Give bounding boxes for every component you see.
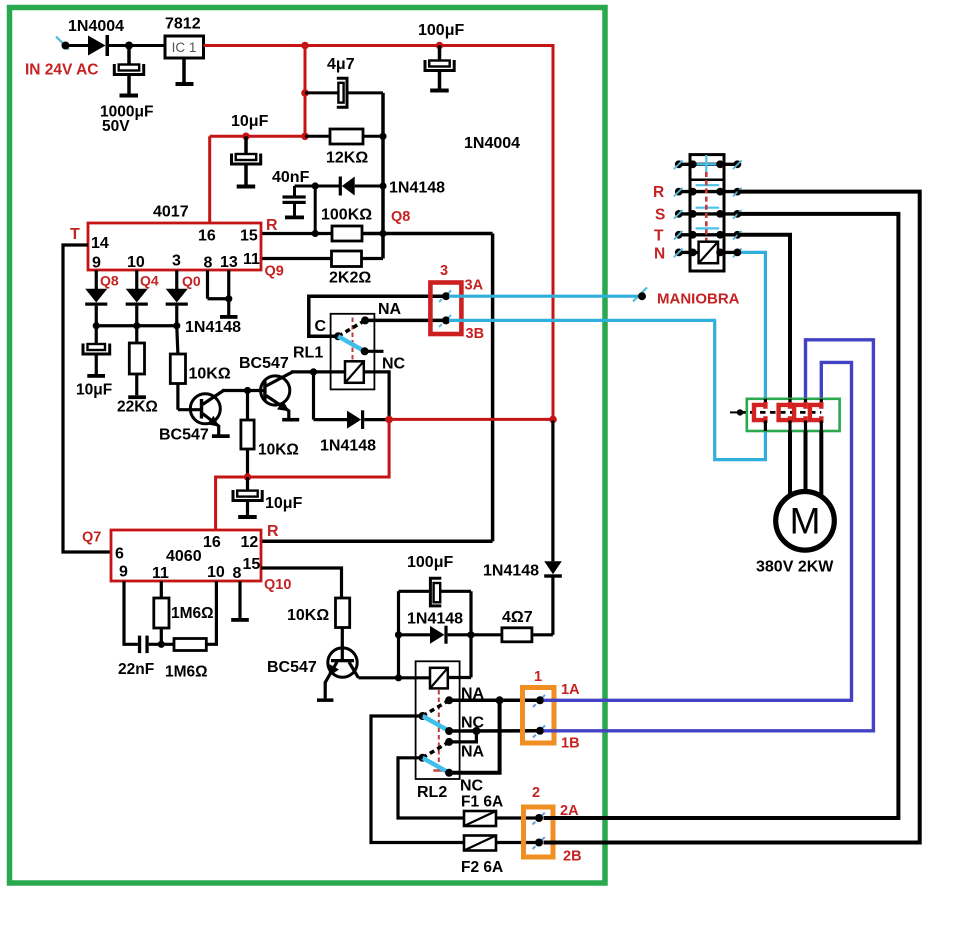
contactor row T [679, 233, 738, 236]
node NC contact [361, 347, 369, 355]
svg-text:100KΩ: 100KΩ [321, 207, 372, 224]
switch arm dashed to NA [338, 320, 365, 336]
svg-text:3B: 3B [466, 326, 485, 342]
wire cyan 3A to MANIOBRA [449, 295, 638, 298]
wire NA to 3B [365, 319, 445, 323]
contactor row N [679, 251, 738, 254]
wire +12V red rail [204, 44, 554, 47]
relay RL1 box [331, 314, 375, 390]
transistor BC547 Q2 [261, 376, 290, 405]
svg-text:1N4148: 1N4148 [483, 563, 539, 580]
wire pin15 Q10 out [261, 568, 342, 598]
contactor row R [679, 190, 738, 193]
node [125, 42, 133, 50]
svg-text:2: 2 [532, 785, 540, 801]
capacitor 10uF (bus) [95, 326, 98, 344]
resistor 10K (Q10) [336, 598, 350, 628]
svg-text:15: 15 [240, 228, 258, 245]
transistor BC547 Q3 [328, 648, 357, 677]
wire pin14 to 4060 pin6 (T line) [63, 245, 111, 552]
svg-text:15: 15 [243, 556, 261, 573]
svg-text:12KΩ: 12KΩ [326, 150, 368, 167]
wire Q8 feedback down to 4060 R [491, 234, 495, 542]
wire red node to +12V rail [389, 418, 553, 421]
svg-text:F1 6A: F1 6A [461, 794, 503, 811]
ground IC1 [182, 58, 186, 82]
svg-text:NC: NC [460, 778, 484, 795]
svg-text:Q10: Q10 [264, 577, 291, 593]
motor M [776, 492, 835, 551]
overload heater phase2 [804, 399, 807, 405]
wire cyan 3B to N loop [449, 319, 716, 322]
svg-text:14: 14 [91, 235, 109, 252]
transistor BC547 Q1 [190, 394, 220, 424]
svg-text:IC 1: IC 1 [172, 40, 197, 55]
overload heater phase3 [820, 399, 823, 405]
capacitor 100uF top [438, 46, 442, 61]
node IN terminal [56, 37, 69, 50]
svg-text:11: 11 [243, 251, 260, 268]
svg-text:6: 6 [115, 546, 124, 563]
svg-text:10μF: 10μF [265, 495, 303, 512]
svg-text:C: C [315, 318, 327, 335]
svg-text:R: R [653, 184, 664, 201]
overload mechanical link dashed [730, 411, 737, 413]
svg-text:1M6Ω: 1M6Ω [165, 664, 208, 681]
svg-text:22KΩ: 22KΩ [117, 399, 158, 416]
wire Q2 collector to RL1 coil [291, 370, 345, 373]
svg-text:40nF: 40nF [272, 169, 310, 186]
relay RL2 coil [430, 668, 448, 689]
svg-text:1N4004: 1N4004 [464, 135, 520, 152]
svg-text:IN 24V AC: IN 24V AC [25, 62, 99, 79]
node 1B [533, 724, 547, 738]
svg-text:8: 8 [204, 255, 213, 272]
svg-text:4060: 4060 [166, 548, 202, 565]
diode 1N4148 (reset) [315, 185, 339, 188]
wire Q1 collector to Q2 base [222, 389, 264, 392]
diode 1N4148 flyback RL1 [347, 411, 361, 429]
node red junction [385, 416, 393, 424]
wire NC1 to connector 1B [449, 729, 540, 733]
wire cyan N loop (3B - overload - N) [715, 252, 766, 459]
svg-text:3: 3 [172, 253, 181, 270]
svg-text:11: 11 [152, 565, 169, 582]
svg-text:10μF: 10μF [76, 382, 112, 399]
svg-text:100μF: 100μF [418, 22, 464, 39]
svg-text:16: 16 [198, 228, 216, 245]
node 1A [533, 694, 547, 708]
svg-text:10: 10 [127, 254, 145, 271]
red dashed actuator contactor [705, 172, 708, 242]
svg-text:T: T [70, 226, 80, 243]
svg-text:100μF: 100μF [407, 554, 453, 571]
wire T phase to overload [737, 235, 790, 399]
overload heater phase1 [788, 399, 791, 405]
resistor 1M6 horizontal [174, 639, 206, 651]
svg-text:10: 10 [207, 564, 225, 581]
svg-text:50V: 50V [102, 118, 130, 135]
svg-text:10KΩ: 10KΩ [287, 607, 329, 624]
svg-text:13: 13 [220, 254, 238, 271]
node MANIOBRA terminal [633, 288, 647, 302]
wire red down-left to 4060 pin16 [216, 419, 390, 530]
capacitor 22nF [138, 636, 141, 654]
wire [66, 44, 89, 47]
resistor 10K (collector Q1) [246, 391, 249, 421]
wire NC2 up to NA1 [449, 700, 500, 773]
svg-text:Q7: Q7 [82, 530, 101, 546]
wire R phase (to 2B) [544, 192, 920, 843]
svg-text:1N4148: 1N4148 [407, 611, 463, 628]
contactor frame [690, 155, 724, 271]
svg-text:1N4148: 1N4148 [389, 180, 445, 197]
capacitor 100uF (RL2) [399, 590, 431, 593]
resistor 22K [135, 326, 138, 343]
capacitor 4u7 [305, 91, 338, 94]
wire common1 to F2 [371, 716, 464, 843]
border frame [10, 8, 606, 884]
svg-text:Q8: Q8 [391, 209, 410, 225]
connector 1 [523, 688, 555, 744]
wire black vertical x383 [381, 93, 385, 259]
resistor 1M6 vertical [160, 581, 163, 598]
switch arm cyan to NC [338, 336, 365, 351]
wire snubber right vertical [469, 591, 472, 677]
svg-text:7812: 7812 [165, 16, 201, 33]
connector 2 [524, 807, 554, 857]
wire Q3 collector to RL2 coil [358, 676, 430, 679]
node 2A [533, 812, 547, 825]
wire S phase (to 2A) [544, 214, 899, 818]
fuse F2 [464, 836, 496, 851]
wire red vertical to 4017 pin16 [208, 136, 211, 223]
capacitor 40nF [295, 185, 316, 188]
capacitor 10uF (pin16 rail) [244, 136, 248, 154]
svg-text:10KΩ: 10KΩ [189, 366, 231, 383]
svg-text:380V 2KW: 380V 2KW [756, 559, 834, 576]
svg-text:Q9: Q9 [265, 264, 284, 280]
node [436, 42, 444, 50]
svg-text:MANIOBRA: MANIOBRA [657, 291, 740, 308]
node [301, 42, 309, 50]
node 3B [439, 314, 452, 327]
diode 1N4148 (to +12V) [551, 578, 554, 635]
svg-text:Q4: Q4 [140, 273, 159, 289]
diode 1N4004 [88, 36, 106, 56]
svg-text:12: 12 [241, 534, 259, 551]
svg-text:8: 8 [233, 565, 242, 582]
relay RL1 coil [345, 361, 364, 383]
svg-text:2B: 2B [563, 849, 582, 865]
svg-text:BC547: BC547 [267, 659, 317, 676]
svg-text:S: S [655, 207, 665, 224]
svg-text:16: 16 [203, 534, 221, 551]
svg-text:10μF: 10μF [231, 113, 269, 130]
svg-text:2K2Ω: 2K2Ω [329, 270, 371, 287]
diode 1N4148 on pin10 [135, 270, 138, 289]
wire pin8 to pin13 [206, 270, 209, 299]
svg-text:1B: 1B [561, 736, 580, 752]
svg-text:3: 3 [440, 263, 448, 279]
resistor 4R7 [502, 628, 532, 642]
resistor 12K [305, 135, 330, 138]
wire red vertical to 100K node [552, 44, 555, 419]
svg-text:Q0: Q0 [182, 273, 201, 289]
svg-text:9: 9 [119, 564, 128, 581]
svg-text:NC: NC [461, 715, 485, 732]
svg-text:M: M [790, 501, 821, 542]
contactor coil [699, 242, 718, 264]
wire C common lead [309, 296, 445, 336]
wire NA1 to connector 1A [449, 699, 540, 703]
svg-text:3A: 3A [465, 278, 484, 294]
red dashed actuator RL1 [352, 318, 354, 362]
resistor 100K row [261, 232, 332, 235]
svg-text:1N4148: 1N4148 [185, 319, 241, 336]
overload heater N [764, 399, 767, 405]
resistor 2K2 row [261, 257, 332, 260]
red dashed actuator RL2 [438, 690, 440, 770]
switch 1 common [419, 712, 427, 720]
fuse F1 [464, 811, 496, 826]
svg-text:RL1: RL1 [293, 345, 323, 362]
wire red vertical x305 [304, 46, 307, 137]
svg-text:NC: NC [382, 356, 406, 373]
IC 4017 [88, 223, 261, 270]
svg-text:1A: 1A [561, 682, 580, 698]
svg-text:N: N [654, 246, 665, 263]
wire 40nF node down to R row [314, 186, 317, 234]
svg-text:4017: 4017 [153, 204, 189, 221]
diode 1N4148 on pin3 [175, 270, 178, 289]
wire common2 to F1 [398, 758, 464, 818]
svg-text:T: T [654, 228, 664, 245]
IC 4060 [111, 530, 261, 581]
capacitor 1000uF [127, 46, 131, 65]
thermal overload relay box [747, 399, 840, 431]
svg-text:NA: NA [378, 301, 402, 318]
svg-text:1: 1 [534, 669, 542, 685]
svg-text:1N4148: 1N4148 [320, 438, 376, 455]
connector 3 [430, 283, 461, 335]
relay RL2 box [416, 661, 460, 779]
contactor row S [679, 212, 738, 215]
resistor 10K (base Q1) [177, 326, 178, 354]
node RL1 common [334, 332, 342, 340]
capacitor 10uF (4060 reset) [246, 477, 249, 491]
diode 1N4148 (RL2 flyback) [399, 633, 431, 636]
wire blue 1B to overload phase 2 [544, 340, 874, 731]
svg-text:9: 9 [92, 255, 101, 272]
wire diode bus [96, 324, 177, 327]
wire red horiz y136 [210, 135, 305, 138]
node 2B [533, 836, 547, 849]
node NA contact [361, 316, 369, 324]
svg-text:R: R [266, 217, 278, 234]
svg-text:Q8: Q8 [100, 273, 119, 289]
diode 1N4148 on pin9 [95, 270, 98, 289]
node [301, 89, 309, 97]
wire pin9 to 22nF [124, 581, 138, 644]
wire NC1 jumper to NA2 [449, 731, 476, 742]
wire motor phases [788, 431, 792, 497]
ground pin13 [227, 270, 230, 315]
svg-text:R: R [267, 523, 279, 540]
svg-text:F2 6A: F2 6A [461, 859, 503, 876]
wire coil right to node [364, 372, 389, 420]
svg-text:1M6Ω: 1M6Ω [171, 605, 214, 622]
node 3A [439, 290, 452, 303]
svg-text:BC547: BC547 [159, 427, 209, 444]
svg-text:1N4004: 1N4004 [68, 18, 124, 35]
svg-text:4Ω7: 4Ω7 [502, 609, 533, 626]
contactor row aux [679, 163, 738, 166]
wire blue 1A to overload phase 3 [544, 362, 852, 700]
wire [109, 44, 165, 47]
svg-text:RL2: RL2 [417, 784, 447, 801]
switch 2 common [419, 754, 427, 762]
wire snubber left vertical [397, 591, 400, 678]
ground pin8 [238, 581, 241, 618]
svg-text:22nF: 22nF [118, 661, 154, 678]
svg-text:NA: NA [461, 744, 485, 761]
svg-text:BC547: BC547 [239, 355, 289, 372]
svg-text:4μ7: 4μ7 [327, 56, 355, 73]
svg-text:10KΩ: 10KΩ [258, 442, 299, 459]
IC1 7812 regulator [165, 36, 204, 58]
wire coil left branch down [312, 372, 315, 420]
